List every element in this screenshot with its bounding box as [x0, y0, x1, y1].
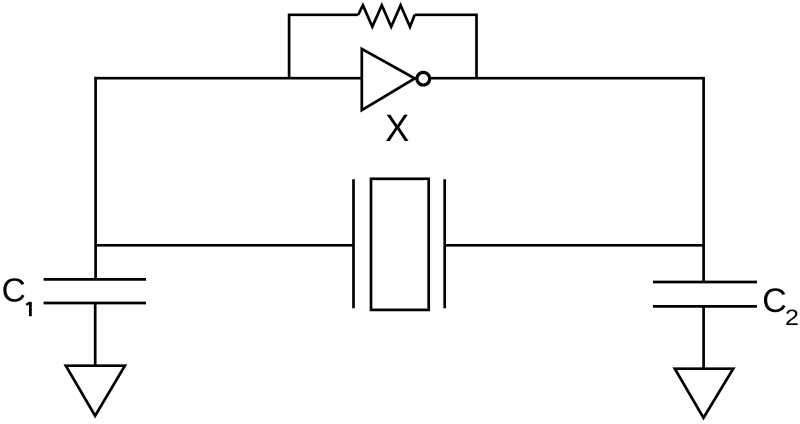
wire feedback loop left side — [289, 15, 358, 78]
capacitor C1 bottom plate — [44, 302, 146, 305]
wire inverter input — [94, 77, 362, 80]
wire C1 to ground — [94, 303, 97, 366]
label C1 subscript 1 — [29, 302, 32, 316]
resistor R1 — [358, 5, 415, 27]
svg-text:2: 2 — [785, 305, 799, 330]
svg-text:C: C — [2, 273, 26, 310]
capacitor C2 top plate — [653, 281, 757, 284]
capacitor C1 top plate — [44, 278, 146, 281]
wire C2 to ground — [702, 306, 705, 368]
crystal right plate — [443, 179, 446, 308]
wire middle left horizontal — [96, 244, 354, 247]
wire middle right horizontal — [445, 244, 704, 247]
inverter output bubble — [417, 72, 430, 85]
capacitor C2 bottom plate — [653, 305, 757, 308]
svg-text:X: X — [385, 108, 409, 150]
wire feedback loop right side — [415, 15, 477, 78]
crystal left plate — [352, 179, 355, 308]
wire left vertical — [94, 77, 97, 280]
inverter X (triangle) — [362, 49, 415, 110]
ground left — [66, 366, 125, 416]
wire inverter output and right vertical — [431, 78, 704, 282]
svg-text:C: C — [762, 282, 787, 320]
crystal body — [371, 179, 429, 310]
ground right — [675, 369, 733, 418]
